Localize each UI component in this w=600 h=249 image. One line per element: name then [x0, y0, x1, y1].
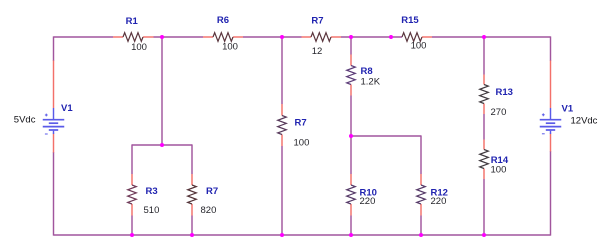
- resistor R10: [347, 185, 356, 204]
- svg-text:100: 100: [411, 41, 427, 52]
- wire x=192 branch: [191, 144, 193, 174]
- resistor R13: [480, 85, 489, 104]
- wire mid horizontal y=136: [351, 135, 421, 137]
- resistor R3 pins: [131, 174, 133, 216]
- resistor R7 (12) pins: [302, 36, 342, 38]
- wire left rail: [53, 36, 55, 61]
- voltage source V1 5Vdc pins: [53, 61, 55, 153]
- wire mid horizontal y=145: [132, 144, 192, 146]
- voltage source V1 (5Vdc): [43, 108, 65, 134]
- resistor R13 pins: [483, 75, 485, 115]
- resistor R8 pins: [350, 55, 352, 96]
- svg-text:12: 12: [312, 46, 323, 57]
- svg-text:820: 820: [201, 205, 217, 216]
- wire x=484 branch: [483, 37, 485, 75]
- resistor R15 pin: [422, 36, 432, 38]
- resistor R3: [128, 185, 137, 204]
- resistor R7 (820) pins: [191, 174, 193, 216]
- resistor R7 (12): [311, 33, 331, 42]
- svg-text:R7: R7: [295, 117, 307, 128]
- svg-text:1.2K: 1.2K: [361, 76, 381, 87]
- wire x=421 branch: [420, 135, 422, 174]
- svg-text:V1: V1: [562, 104, 574, 115]
- svg-text:5Vdc: 5Vdc: [14, 115, 36, 126]
- svg-text:R7: R7: [206, 186, 218, 197]
- resistor R10 pins: [350, 174, 352, 216]
- wire node B vertical x=162: [161, 37, 163, 145]
- wire right rail: [550, 36, 552, 61]
- svg-text:220: 220: [360, 196, 376, 207]
- resistor R12 pins: [420, 174, 422, 216]
- wire x=282 branch: [281, 37, 283, 104]
- voltage source V1 12Vdc pins: [550, 61, 552, 152]
- svg-text:V1: V1: [61, 103, 73, 114]
- svg-text:270: 270: [491, 107, 507, 118]
- resistor R1 pins: [113, 36, 154, 38]
- voltage source V1 (12Vdc): [540, 108, 562, 134]
- svg-text:100: 100: [131, 42, 147, 53]
- resistor R6: [213, 33, 233, 42]
- resistor R14 pins: [483, 140, 485, 180]
- resistor R1: [123, 33, 143, 42]
- resistor R7 (100 vertical) pins: [281, 104, 283, 146]
- wire x=351 branch: [350, 37, 352, 55]
- svg-text:510: 510: [144, 205, 160, 216]
- svg-text:R13: R13: [496, 87, 513, 98]
- svg-text:100: 100: [222, 41, 238, 52]
- wire top rail: [54, 36, 551, 38]
- resistor R14: [480, 150, 489, 169]
- resistor R8: [347, 66, 356, 85]
- svg-text:220: 220: [431, 196, 447, 207]
- svg-text:100: 100: [491, 164, 507, 175]
- resistor R7 (820): [188, 185, 197, 204]
- svg-text:R1: R1: [126, 16, 139, 27]
- resistor R6 pins: [203, 36, 243, 38]
- svg-text:R7: R7: [311, 15, 323, 26]
- svg-text:R15: R15: [401, 15, 419, 26]
- svg-text:R6: R6: [217, 15, 229, 26]
- svg-text:100: 100: [294, 138, 310, 149]
- resistor R12: [417, 185, 426, 204]
- resistor R7 (100 vertical): [278, 116, 287, 135]
- resistor R15: [402, 33, 422, 42]
- svg-text:R8: R8: [361, 66, 373, 77]
- wire bottom rail: [54, 234, 551, 236]
- wire x=132 branch: [131, 144, 133, 174]
- svg-text:R3: R3: [146, 186, 158, 197]
- svg-text:12Vdc: 12Vdc: [571, 116, 598, 127]
